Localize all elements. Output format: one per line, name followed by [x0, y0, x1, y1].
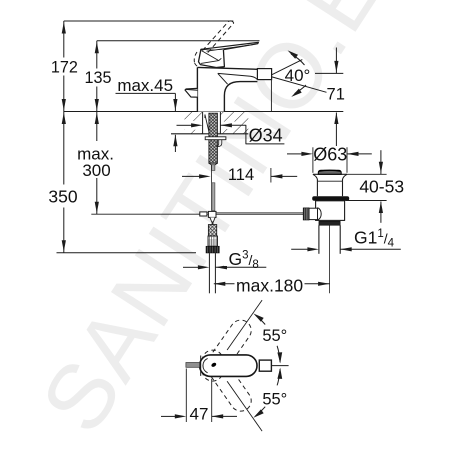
- svg-text:114: 114: [228, 166, 254, 184]
- svg-text:55°: 55°: [262, 390, 287, 408]
- svg-text:350: 350: [48, 186, 77, 206]
- svg-text:172: 172: [51, 58, 78, 76]
- svg-text:40°: 40°: [285, 66, 311, 85]
- svg-text:40-53: 40-53: [359, 176, 404, 196]
- svg-text:55°: 55°: [262, 327, 287, 345]
- svg-text:Ø34: Ø34: [249, 126, 283, 146]
- svg-text:47: 47: [190, 405, 209, 424]
- svg-text:max.180: max.180: [236, 276, 303, 296]
- svg-text:71: 71: [327, 86, 345, 104]
- svg-text:135: 135: [84, 69, 111, 87]
- svg-text:300: 300: [82, 161, 110, 180]
- svg-text:Ø63: Ø63: [313, 144, 347, 164]
- svg-text:max.45: max.45: [117, 76, 173, 95]
